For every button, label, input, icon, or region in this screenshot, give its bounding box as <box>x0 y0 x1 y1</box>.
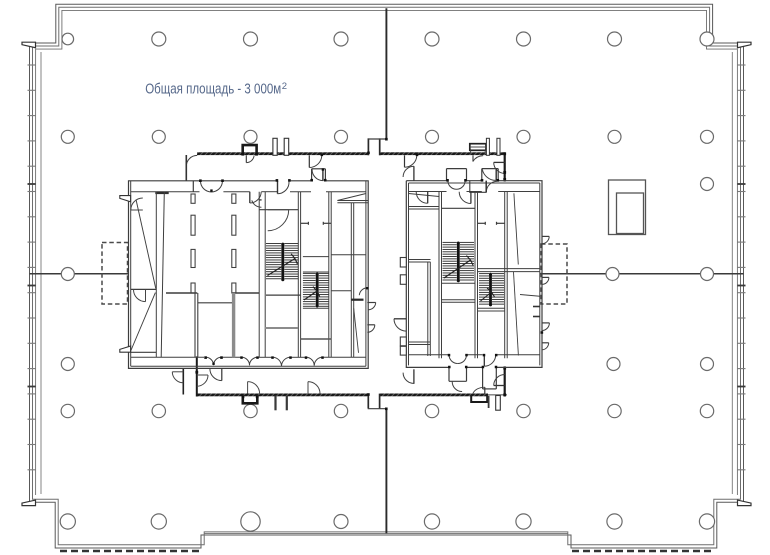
svg-text:Общая площадь - 3 000м: Общая площадь - 3 000м <box>145 81 281 97</box>
svg-text:2: 2 <box>282 81 287 92</box>
